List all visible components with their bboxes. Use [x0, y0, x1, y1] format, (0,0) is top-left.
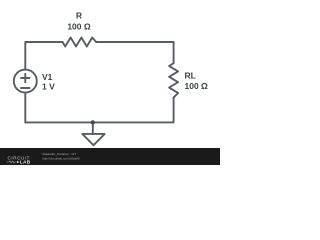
svg-text:100 Ω: 100 Ω	[67, 21, 91, 31]
watermark bar	[0, 148, 220, 165]
junction node dot	[91, 120, 95, 124]
ground stub	[92, 122, 94, 133]
minus sign	[21, 87, 30, 89]
svg-text:100 Ω: 100 Ω	[185, 81, 209, 91]
resistor R1 zigzag	[63, 38, 97, 47]
svg-text:1 V: 1 V	[42, 82, 55, 92]
svg-text:R: R	[76, 11, 82, 21]
ground triangle	[82, 134, 104, 145]
svg-text:LAB: LAB	[20, 160, 31, 165]
watermark logo resistor glyph	[7, 161, 17, 163]
wire left-bottom segment	[24, 93, 26, 123]
voltage source V1 circle	[14, 70, 37, 93]
svg-text:RL: RL	[185, 71, 196, 81]
svg-text:Alejandro_Campos : v17: Alejandro_Campos : v17	[42, 152, 76, 156]
resistor RL zigzag	[169, 63, 178, 97]
wire top-right segment	[96, 42, 173, 63]
svg-text:http://circuitlab.com/c9caff0: http://circuitlab.com/c9caff0	[42, 157, 80, 161]
wire top-left segment	[25, 42, 62, 70]
wire right-bottom segment	[25, 98, 173, 123]
watermark logo diode glyph	[17, 161, 19, 164]
plus sign	[21, 74, 30, 82]
svg-text:V1: V1	[42, 72, 53, 82]
